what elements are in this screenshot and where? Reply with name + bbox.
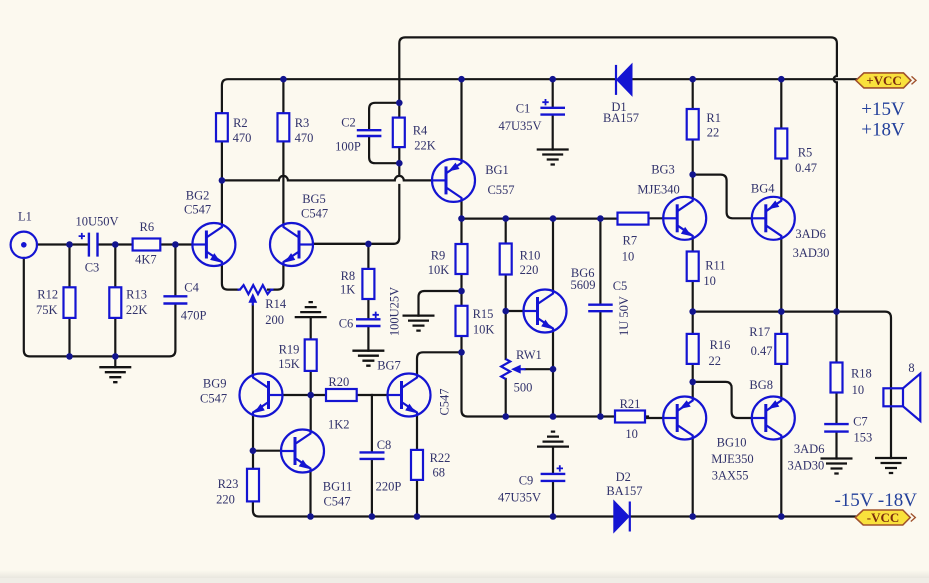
ground C6 <box>352 351 384 366</box>
svg-text:R2: R2 <box>233 116 248 130</box>
wire R4 stubs <box>398 103 400 163</box>
svg-text:C557: C557 <box>487 183 514 197</box>
wire RW1 wiper to node <box>526 368 554 370</box>
wire R5 stubs <box>780 79 782 198</box>
ground input <box>99 367 131 382</box>
wire +VCC rail left section <box>222 79 615 113</box>
wire R18 C7 column <box>835 312 837 459</box>
wire drive row to R7 <box>462 218 618 220</box>
wire BG9 emitter to R23 <box>252 415 254 469</box>
capacitor C7 <box>824 424 849 432</box>
resistor R7 <box>618 213 649 225</box>
wire BG7 emitter to R22 <box>416 415 418 450</box>
wire R10 column <box>505 219 507 417</box>
wire R9 stubs <box>460 219 462 291</box>
svg-text:10: 10 <box>852 383 865 397</box>
wire BG3 collector <box>692 175 694 199</box>
resistor R17 <box>775 334 787 364</box>
svg-text:22K: 22K <box>126 303 148 317</box>
capacitor C4 <box>163 296 187 303</box>
wire BG10 emitter node to BG8 base <box>693 382 752 418</box>
power flag +VCC <box>856 73 916 88</box>
svg-text:R4: R4 <box>413 124 428 138</box>
svg-text:BA157: BA157 <box>606 484 642 498</box>
svg-text:R11: R11 <box>705 258 725 272</box>
svg-text:R13: R13 <box>126 288 147 302</box>
svg-text:C547: C547 <box>438 388 452 415</box>
wire R19 column <box>310 317 312 431</box>
svg-text:C1: C1 <box>516 101 531 115</box>
svg-text:RW1: RW1 <box>516 348 542 362</box>
svg-text:10K: 10K <box>428 263 450 277</box>
svg-text:R10: R10 <box>520 248 541 262</box>
capacitor C6 <box>356 312 381 326</box>
svg-text:R14: R14 <box>265 297 287 311</box>
svg-text:+VCC: +VCC <box>866 73 902 88</box>
wire R20 row BG9 node to body <box>311 394 326 396</box>
svg-text:-VCC: -VCC <box>867 510 900 525</box>
wire BG4 collector to output row <box>780 238 782 311</box>
capacitor C2 <box>357 130 382 136</box>
svg-text:500: 500 <box>514 381 533 395</box>
svg-text:1K2: 1K2 <box>328 418 350 432</box>
wire R8 stubs <box>367 244 369 319</box>
wire C8 column <box>371 395 373 517</box>
svg-text:R6: R6 <box>140 220 155 234</box>
wire neg rail left section <box>253 501 613 516</box>
transistor BG3 <box>663 197 706 240</box>
potentiometer R14 <box>238 285 274 305</box>
svg-text:R3: R3 <box>295 116 310 130</box>
svg-text:R18: R18 <box>851 367 872 381</box>
svg-text:C547: C547 <box>301 206 328 220</box>
svg-text:C9: C9 <box>519 473 534 487</box>
svg-text:15K: 15K <box>278 357 300 371</box>
transistor BG2 <box>192 223 235 266</box>
transistor BG1 <box>432 159 475 202</box>
resistor R13 <box>109 287 121 318</box>
svg-text:100P: 100P <box>335 139 361 153</box>
resistor R11 <box>687 252 699 282</box>
resistor R20 <box>326 389 357 401</box>
svg-text:R16: R16 <box>710 338 731 352</box>
svg-text:47U35V: 47U35V <box>498 490 541 504</box>
wire R13 stubs <box>114 245 116 357</box>
wire C3 to R6 <box>99 243 133 245</box>
resistor R18 <box>831 363 843 393</box>
wire R22 to neg rail <box>416 480 418 517</box>
wire BG3 emitter to R11 <box>692 238 694 251</box>
svg-text:BG1: BG1 <box>485 163 509 177</box>
svg-text:3AD30: 3AD30 <box>793 246 830 260</box>
wire R3 column rail to BG5 collector <box>282 79 284 224</box>
resistor R9 <box>456 244 468 274</box>
wire BG5 emitter to R14 right <box>268 265 283 290</box>
svg-text:75K: 75K <box>36 303 58 317</box>
svg-text:R20: R20 <box>328 375 349 389</box>
wire C4 top stub <box>174 245 176 296</box>
resistor R4 <box>393 118 405 148</box>
svg-text:220: 220 <box>520 263 539 277</box>
svg-text:R9: R9 <box>431 248 446 262</box>
wire BG9 base to R19 column <box>283 394 311 396</box>
wire BG10 collector to neg rail <box>692 438 694 517</box>
svg-text:220P: 220P <box>376 480 402 494</box>
svg-text:100U25V: 100U25V <box>388 287 402 336</box>
svg-text:R23: R23 <box>218 477 239 491</box>
svg-text:3AX55: 3AX55 <box>712 469 749 483</box>
svg-text:BG11: BG11 <box>323 480 352 494</box>
wire R14 wiper shaft to BG9 collector <box>252 306 254 376</box>
wire BG8 collector to neg rail <box>780 438 782 517</box>
svg-text:C2: C2 <box>341 115 356 129</box>
svg-text:C547: C547 <box>200 392 227 406</box>
wire L1 down to bottom-left row to C4 bottom <box>24 258 176 356</box>
svg-text:47U35V: 47U35V <box>498 119 541 133</box>
resistor R15 <box>456 306 468 336</box>
resistor R2 <box>216 113 228 141</box>
resistor R6 <box>133 239 161 251</box>
resistor R10 <box>500 244 512 275</box>
text +15V +18V <box>861 99 905 141</box>
capacitor C1 <box>540 99 565 115</box>
resistor R23 <box>247 469 259 502</box>
capacitor C5 <box>588 305 613 312</box>
svg-text:22: 22 <box>707 125 720 139</box>
wire BG2 emitter to R14 left <box>222 265 238 290</box>
wire C6 to ground <box>367 327 369 351</box>
svg-text:R8: R8 <box>341 269 356 283</box>
svg-text:5609: 5609 <box>571 278 596 292</box>
svg-text:470P: 470P <box>181 309 207 323</box>
svg-text:470: 470 <box>233 131 252 145</box>
svg-text:BG5: BG5 <box>302 192 326 206</box>
wire C2 top branch <box>369 103 399 130</box>
wire input row L1 to C3 <box>37 243 88 245</box>
svg-text:R22: R22 <box>430 451 451 465</box>
svg-text:10U50V: 10U50V <box>75 215 118 229</box>
svg-text:1U 50V: 1U 50V <box>617 296 631 336</box>
wire R16 to BG10 emitter <box>692 364 694 398</box>
wire BG3 base node to BG4 base <box>693 175 752 219</box>
svg-text:10K: 10K <box>473 322 495 336</box>
wire C1 stubs <box>552 79 554 149</box>
svg-text:BG9: BG9 <box>203 376 227 390</box>
transistor BG6 <box>524 290 567 333</box>
wire row R2-bottom to BG1 base with hops <box>222 176 432 181</box>
wire BG9 emitter node to BG11 base <box>253 450 281 452</box>
svg-text:C4: C4 <box>184 281 199 295</box>
svg-text:3AD6: 3AD6 <box>794 442 825 456</box>
svg-text:C8: C8 <box>377 438 392 452</box>
svg-text:BG7: BG7 <box>377 359 401 373</box>
ground C1 <box>537 150 569 165</box>
transistor BG4 <box>752 197 795 240</box>
svg-text:BA157: BA157 <box>603 111 639 125</box>
resistor R16 <box>687 334 699 364</box>
wire BG6 collector to drive row <box>552 219 554 291</box>
svg-text:BG8: BG8 <box>749 378 773 392</box>
wire C5 column <box>599 219 601 417</box>
svg-text:BG2: BG2 <box>186 188 210 202</box>
wire R21 to BG10 base <box>645 417 663 419</box>
svg-text:C6: C6 <box>339 317 354 331</box>
wire R16 stub <box>692 312 694 334</box>
wire output row to speaker <box>693 312 891 389</box>
resistor R21 <box>615 411 645 423</box>
resistor R3 <box>278 113 290 141</box>
wire BG11 emitter to neg rail <box>309 471 311 517</box>
resistor R19 <box>305 339 317 371</box>
wire R7 to BG3 base <box>649 217 664 219</box>
svg-text:R15: R15 <box>473 307 494 321</box>
transistor BG5 <box>270 223 313 266</box>
wire bootstrap top bypass to output node <box>399 37 837 311</box>
svg-text:220: 220 <box>216 492 235 506</box>
wire R15 bottom node to BG7 collector <box>417 352 462 375</box>
svg-text:22: 22 <box>709 354 722 368</box>
wire R20 to BG7 base <box>357 394 388 396</box>
transistor BG8 <box>752 397 795 440</box>
svg-text:R17: R17 <box>749 325 770 339</box>
wire R11 to output row <box>692 281 694 312</box>
wire R17 to BG8 emitter <box>780 364 782 398</box>
svg-text:BG10: BG10 <box>717 435 747 449</box>
svg-text:+18V: +18V <box>861 120 905 141</box>
svg-text:68: 68 <box>432 466 445 480</box>
wire +VCC rail right section <box>632 78 856 80</box>
resistor R5 <box>775 129 787 159</box>
wire speaker to ground <box>890 388 892 458</box>
resistor R1 <box>687 109 699 140</box>
wire ground stub input <box>114 356 116 367</box>
svg-text:R19: R19 <box>279 343 300 357</box>
capacitor C8 <box>360 452 385 459</box>
svg-text:R5: R5 <box>798 146 813 160</box>
svg-text:R21: R21 <box>620 397 641 411</box>
wire R4-C2 node down to BG5 base row <box>313 163 399 244</box>
svg-text:-15V -18V: -15V -18V <box>834 490 917 511</box>
diode D1 BA157 <box>616 65 631 95</box>
wire C2 bottom branch <box>369 137 399 163</box>
ground C7 <box>821 459 853 474</box>
svg-text:R12: R12 <box>37 288 58 302</box>
svg-text:0.47: 0.47 <box>751 344 773 358</box>
connector L1 <box>11 232 37 258</box>
wire R17 stub <box>780 312 782 334</box>
wire R2 bottom to BG2 collector node <box>221 141 223 224</box>
svg-text:0.47: 0.47 <box>795 161 817 175</box>
svg-text:C3: C3 <box>85 261 100 275</box>
svg-text:22K: 22K <box>414 139 436 153</box>
svg-text:BG3: BG3 <box>651 162 675 176</box>
wire ground tap at R9-R15 node <box>419 291 462 316</box>
transistor BG7 <box>388 374 431 417</box>
capacitor C3 <box>79 233 98 257</box>
svg-text:200: 200 <box>265 313 284 327</box>
svg-text:MJE350: MJE350 <box>711 452 753 466</box>
svg-text:8: 8 <box>908 361 914 375</box>
svg-text:470: 470 <box>295 131 314 145</box>
svg-text:153: 153 <box>854 430 873 444</box>
wire R1 stubs <box>692 79 694 174</box>
wire R15 node down to lower row <box>462 352 616 416</box>
capacitor C9 <box>541 465 566 481</box>
svg-text:D2: D2 <box>616 470 631 484</box>
svg-text:10: 10 <box>625 427 638 441</box>
resistor R8 <box>362 269 374 299</box>
power flag -VCC <box>855 510 915 525</box>
wire BG6 emitter to RW1 wiper node <box>552 331 554 417</box>
wire BG1 collector to drive row <box>460 200 462 218</box>
wire R6 to BG2 base <box>160 243 192 245</box>
svg-text:C547: C547 <box>184 203 211 217</box>
svg-text:L1: L1 <box>18 210 32 224</box>
svg-text:R7: R7 <box>623 234 638 248</box>
svg-text:BG4: BG4 <box>751 182 775 196</box>
wire R12 stubs <box>68 245 70 357</box>
ground tap R9-R15 <box>403 316 435 331</box>
ground above R19 (inverted) <box>295 302 327 317</box>
resistor R12 <box>64 287 76 318</box>
wire BG6 base <box>506 310 524 312</box>
svg-text:+15V: +15V <box>861 99 905 120</box>
diode D2 BA157 <box>614 502 629 532</box>
transistor BG11 <box>281 430 324 473</box>
transistor BG9 <box>240 374 283 417</box>
svg-text:1K: 1K <box>340 283 355 297</box>
wire BG5 base to R8 node and corner <box>313 243 393 245</box>
svg-text:C5: C5 <box>613 279 628 293</box>
svg-text:MJE340: MJE340 <box>637 183 679 197</box>
svg-text:C7: C7 <box>853 414 868 428</box>
svg-text:C547: C547 <box>323 494 350 508</box>
ground above C9 (inverted) <box>537 432 569 447</box>
wire R15 stubs <box>460 291 462 352</box>
wire BG1 emitter to rail <box>460 79 462 160</box>
wire C9 column <box>552 447 554 517</box>
transistor BG10 <box>663 397 706 440</box>
svg-text:10: 10 <box>622 249 635 263</box>
svg-text:10: 10 <box>703 274 716 288</box>
svg-text:3AD6: 3AD6 <box>795 227 826 241</box>
svg-text:R1: R1 <box>706 111 721 125</box>
ground speaker <box>875 458 907 473</box>
potentiometer RW1 <box>501 359 525 379</box>
svg-text:3AD30: 3AD30 <box>787 459 824 473</box>
svg-text:4K7: 4K7 <box>135 253 157 267</box>
resistor R22 <box>411 450 423 480</box>
wire neg rail right section <box>631 515 855 517</box>
speaker <box>883 374 920 421</box>
